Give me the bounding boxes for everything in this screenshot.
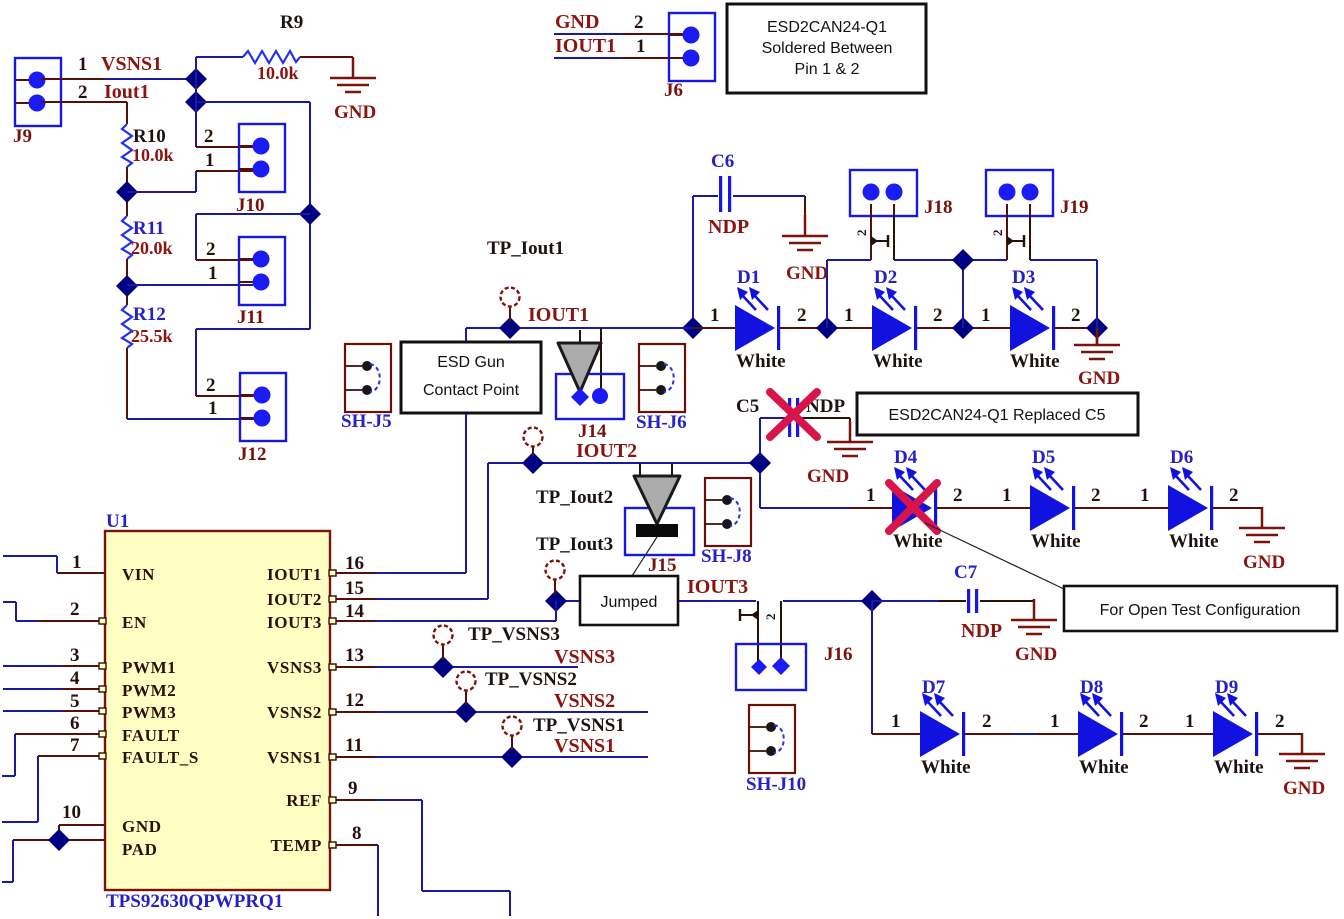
capacitor C6	[693, 176, 805, 212]
wire J19 pin legs	[1007, 216, 1030, 260]
svg-text:PWM1: PWM1	[122, 658, 176, 677]
wire (196,214)-(310,214) and down to J11 pin2	[196, 214, 310, 260]
svg-text:2: 2	[982, 711, 992, 732]
node junction at (533,463)	[522, 452, 544, 474]
svg-text:FAULT: FAULT	[122, 726, 180, 745]
connector J19	[986, 170, 1053, 216]
wire junction to J10 pin1	[127, 171, 253, 192]
svg-text:GND: GND	[786, 263, 828, 284]
wire REF pin9	[330, 800, 510, 916]
svg-text:GND: GND	[122, 817, 162, 836]
svg-text:IOUT1: IOUT1	[267, 565, 322, 584]
wire IOUT2 net	[488, 463, 760, 599]
svg-text:J9: J9	[13, 126, 32, 147]
node junction at (512,757)	[501, 746, 523, 768]
svg-text:J18: J18	[924, 197, 953, 218]
wire EN pin2	[3, 602, 105, 621]
svg-text:D8: D8	[1080, 677, 1103, 698]
node junction at (127,286)	[116, 275, 138, 297]
wire TEMP pin8	[330, 845, 378, 916]
svg-text:15: 15	[345, 578, 364, 599]
svg-text:White: White	[1169, 531, 1219, 552]
wire J9 pin1 to VSNS1 node	[41, 78, 196, 80]
pin marker EN	[99, 618, 106, 624]
svg-text:C6: C6	[711, 151, 734, 172]
wire D7 feed riser	[872, 601, 921, 734]
svg-text:White: White	[1010, 351, 1060, 372]
svg-text:J14: J14	[578, 421, 607, 442]
svg-text:Pin 1 & 2: Pin 1 & 2	[795, 61, 860, 78]
wire C6 to GND	[804, 196, 806, 216]
svg-text:U1: U1	[106, 511, 129, 532]
svg-text:IOUT1: IOUT1	[555, 35, 616, 57]
wire J14 right pin drop	[600, 328, 602, 390]
svg-text:GND: GND	[334, 102, 376, 123]
node junction at (693,328)	[682, 317, 704, 339]
callout box: For Open Test Configuration	[1064, 586, 1337, 631]
svg-text:16: 16	[345, 553, 364, 574]
svg-text:J6: J6	[664, 80, 683, 101]
wire FAULT_S pin7	[2, 756, 105, 822]
LED D3	[1010, 287, 1055, 351]
wire D4 feed	[760, 507, 893, 509]
svg-text:ESD2CAN24-Q1: ESD2CAN24-Q1	[767, 19, 887, 36]
LED D8	[1078, 693, 1123, 757]
wire D1 anode	[693, 327, 736, 329]
node junction at (827,328)	[816, 317, 838, 339]
shunt jumper SH-J8	[705, 478, 751, 546]
svg-text:2: 2	[933, 305, 943, 326]
svg-text:2: 2	[206, 239, 216, 260]
wire to R9	[196, 56, 243, 58]
wire R9 to GND	[300, 56, 353, 58]
wire IOUT1 pin16	[330, 572, 466, 574]
pin marker TEMP	[329, 842, 336, 848]
svg-text:D5: D5	[1032, 447, 1055, 468]
connector J11	[239, 237, 285, 305]
connector J12	[240, 373, 286, 441]
wire VSNS1 pin11	[330, 756, 648, 758]
connector J15	[625, 508, 694, 555]
svg-text:2: 2	[70, 599, 80, 620]
svg-text:2: 2	[78, 82, 88, 103]
wire IOUT3 net left segment	[556, 600, 756, 602]
svg-text:J15: J15	[648, 555, 677, 576]
test point TP_VSNS3	[434, 626, 453, 661]
svg-text:2: 2	[1091, 485, 1101, 506]
test point TP_Iout3	[546, 561, 565, 596]
wire IOUT2 pin15	[330, 598, 488, 600]
svg-text:TP_VSNS3: TP_VSNS3	[468, 624, 560, 645]
pin marker PWM1	[99, 663, 106, 669]
svg-text:D4: D4	[894, 447, 918, 468]
wire bypass riser x=963	[962, 260, 964, 328]
node junction at (872,601)	[861, 590, 883, 612]
svg-text:D6: D6	[1170, 447, 1193, 468]
svg-text:11: 11	[345, 735, 363, 756]
wire J15 pin stubs	[640, 463, 672, 495]
svg-text:NDP: NDP	[961, 620, 1002, 642]
wire J16 pin legs	[758, 601, 781, 661]
node junction at (1097,328)	[1086, 317, 1108, 339]
connector J14	[556, 374, 624, 419]
wire IOUT1 to J6 pin1	[554, 57, 686, 59]
pin marker PWM2	[99, 686, 106, 692]
connector J18	[850, 170, 917, 216]
svg-text:C5: C5	[736, 396, 759, 417]
wire D9 to gnd	[1258, 734, 1302, 736]
leader line to Jumped box	[632, 537, 657, 576]
ESD diode symbol (J18)	[854, 230, 888, 248]
pin marker FAULT_S	[99, 753, 106, 759]
wire VIN pin1	[3, 556, 105, 573]
callout box: ESD2CAN24-Q1 Soldered Between Pin 1 & 2	[727, 4, 926, 93]
svg-text:1: 1	[72, 552, 82, 573]
wire PWM2 pin4	[3, 688, 105, 690]
pin marker VSNS1	[329, 754, 336, 760]
pin marker VSNS2	[329, 709, 336, 715]
open cross on D4	[889, 483, 937, 531]
node junction at (196,102)	[185, 91, 207, 113]
pins (J14)	[571, 388, 608, 406]
svg-text:White: White	[736, 351, 786, 372]
svg-text:2: 2	[204, 126, 214, 147]
wire PWM3 pin5	[3, 710, 105, 712]
svg-text:1: 1	[844, 305, 854, 326]
pin marker REF	[329, 797, 336, 803]
svg-text:IOUT2: IOUT2	[576, 440, 637, 462]
node junction at (466,712)	[455, 701, 477, 723]
svg-text:2: 2	[634, 12, 644, 33]
wire D7-D8	[965, 733, 1079, 735]
wire D3 cathode to gnd node	[1055, 327, 1097, 329]
svg-text:2: 2	[1275, 711, 1285, 732]
pin marker PWM3	[99, 708, 106, 714]
svg-text:1: 1	[208, 263, 218, 284]
connector J10	[239, 124, 285, 192]
svg-text:2: 2	[206, 375, 216, 396]
resistor R9	[243, 51, 300, 63]
wire vertical bus x=196 top	[195, 57, 197, 147]
LED D6	[1168, 467, 1213, 531]
wire right riser x=310	[309, 102, 311, 329]
wire J9 pin2	[41, 102, 127, 124]
svg-text:R12: R12	[133, 304, 166, 325]
wire C6 left drop to D1 node	[692, 196, 694, 328]
LED D4	[892, 467, 937, 531]
node junction at (127,192)	[116, 181, 138, 203]
wire bus x196 to J10 pin2	[196, 146, 253, 148]
shunt jumper SH-J5	[345, 344, 391, 412]
wire VSNS3 pin13	[330, 666, 578, 668]
svg-text:For Open Test Configuration: For Open Test Configuration	[1100, 602, 1301, 619]
svg-text:TP_Iout3: TP_Iout3	[536, 534, 613, 555]
ground (C5)	[807, 421, 873, 487]
test point TP_VSNS1	[503, 717, 522, 751]
svg-text:EN: EN	[122, 613, 147, 632]
svg-text:REF: REF	[286, 791, 322, 810]
svg-text:1: 1	[866, 485, 876, 506]
svg-text:TP_Iout1: TP_Iout1	[487, 238, 564, 259]
svg-text:Iout1: Iout1	[104, 81, 150, 103]
svg-text:R10: R10	[133, 126, 166, 147]
wire R10 bottom	[126, 167, 128, 216]
test point TP_VSNS2	[457, 672, 476, 706]
callout box: ESD2CAN24-Q1 Replaced C5	[857, 393, 1138, 435]
svg-text:10.0k: 10.0k	[257, 63, 299, 83]
svg-text:VSNS1: VSNS1	[267, 748, 322, 767]
svg-text:IOUT3: IOUT3	[267, 613, 322, 632]
svg-text:D7: D7	[922, 677, 946, 698]
svg-text:TP_VSNS2: TP_VSNS2	[485, 669, 577, 690]
wire C5 branch riser	[759, 418, 761, 508]
svg-text:13: 13	[345, 645, 364, 666]
pin marker IOUT3	[329, 618, 336, 624]
svg-text:GND: GND	[1243, 552, 1285, 573]
svg-text:1: 1	[636, 36, 646, 57]
svg-text:D1: D1	[737, 267, 760, 288]
svg-text:1: 1	[78, 54, 88, 75]
pin marker IOUT2	[329, 596, 336, 602]
svg-text:8: 8	[352, 823, 362, 844]
test point TP_Iout2	[524, 428, 543, 457]
svg-text:TP_VSNS1: TP_VSNS1	[533, 715, 625, 736]
svg-text:NDP: NDP	[708, 216, 749, 238]
resistor R10	[122, 124, 132, 167]
wire (196,102)-(310,102)	[196, 101, 310, 103]
ground (R9)	[330, 57, 376, 123]
ESD diode symbol (J19)	[990, 230, 1024, 248]
svg-text:White: White	[921, 757, 971, 778]
svg-text:SH-J8: SH-J8	[701, 546, 752, 567]
svg-text:SH-J6: SH-J6	[636, 412, 687, 433]
svg-text:R9: R9	[280, 12, 303, 33]
svg-text:GND: GND	[555, 11, 599, 33]
svg-text:SH-J5: SH-J5	[341, 411, 392, 432]
svg-text:2: 2	[763, 614, 778, 621]
wire PWM1 pin3	[3, 665, 105, 667]
wire IOUT3 net right segment	[783, 600, 872, 602]
node junction at (310,214)	[299, 203, 321, 225]
svg-text:C7: C7	[954, 562, 978, 583]
wire D1-D2	[780, 327, 873, 329]
svg-text:White: White	[1214, 757, 1264, 778]
callout box: ESD Gun Contact Point	[401, 342, 541, 413]
svg-text:TEMP: TEMP	[270, 836, 322, 855]
LED D2	[872, 287, 917, 351]
svg-text:Soldered Between: Soldered Between	[762, 40, 893, 57]
svg-text:TPS92630QPWPRQ1: TPS92630QPWPRQ1	[106, 891, 283, 912]
wire J14 left pin stub	[579, 330, 581, 344]
wire GND to J6 pin2	[554, 33, 686, 35]
svg-text:ESD2CAN24-Q1 Replaced C5: ESD2CAN24-Q1 Replaced C5	[889, 407, 1106, 424]
resistor R11	[122, 216, 132, 259]
svg-text:2: 2	[1139, 711, 1149, 732]
wire IOUT3 pin14	[330, 601, 556, 621]
wire D8-D9	[1123, 733, 1214, 735]
svg-text:1: 1	[1185, 711, 1195, 732]
svg-text:9: 9	[348, 778, 358, 799]
svg-text:1: 1	[1002, 485, 1012, 506]
svg-text:2: 2	[854, 230, 869, 237]
svg-text:D9: D9	[1215, 677, 1238, 698]
svg-text:20.0k: 20.0k	[131, 238, 173, 258]
node junction at (963,260)	[952, 249, 974, 271]
svg-text:1: 1	[205, 150, 215, 171]
svg-text:VSNS1: VSNS1	[554, 735, 615, 757]
svg-text:GND: GND	[1078, 368, 1120, 389]
svg-text:VSNS2: VSNS2	[554, 690, 615, 712]
svg-text:2: 2	[1071, 305, 1081, 326]
svg-text:J16: J16	[824, 644, 853, 665]
svg-text:25.5k: 25.5k	[131, 326, 173, 346]
test point TP_Iout1	[501, 288, 520, 323]
svg-text:12: 12	[345, 690, 364, 711]
svg-text:4: 4	[70, 668, 80, 689]
pin marker VSNS3	[329, 664, 336, 670]
ESD diode symbol (J16)	[740, 609, 778, 621]
svg-text:GND: GND	[1283, 778, 1325, 799]
svg-text:Contact Point: Contact Point	[423, 382, 520, 399]
svg-text:White: White	[1079, 757, 1129, 778]
callout box: Jumped	[580, 576, 678, 625]
wire R11 bottom	[126, 259, 128, 305]
jumper bar (J15)	[636, 524, 678, 537]
svg-text:ESD Gun: ESD Gun	[437, 354, 505, 371]
wire D6 to gnd	[1213, 508, 1262, 510]
ground (D9)	[1279, 733, 1325, 799]
wire VSNS2 pin12	[330, 711, 648, 713]
ground (C6)	[782, 215, 828, 284]
svg-text:1: 1	[981, 305, 991, 326]
wire C5 to GND	[849, 418, 851, 422]
svg-text:GND: GND	[807, 466, 849, 487]
connector J9	[15, 58, 61, 126]
connector J16	[736, 644, 806, 690]
svg-text:VSNS3: VSNS3	[554, 646, 615, 668]
svg-text:5: 5	[70, 691, 80, 712]
node junction at (760,463)	[749, 452, 771, 474]
wire J18 pin legs	[871, 216, 894, 260]
wire IOUT1 net	[466, 328, 693, 573]
svg-text:IOUT2: IOUT2	[267, 590, 322, 609]
svg-text:10: 10	[62, 802, 81, 823]
svg-text:GND: GND	[1015, 644, 1057, 665]
LED D5	[1030, 467, 1075, 531]
wire D4-D5	[937, 507, 1031, 509]
svg-text:VSNS2: VSNS2	[267, 703, 322, 722]
svg-text:VSNS1: VSNS1	[101, 53, 162, 75]
node junction at (59,840)	[48, 829, 70, 851]
svg-text:White: White	[1031, 531, 1081, 552]
svg-text:14: 14	[345, 601, 365, 622]
wire junction to J11 pin1	[127, 284, 253, 286]
svg-text:White: White	[873, 351, 923, 372]
ESD gun arrow (J14)	[558, 343, 601, 392]
svg-text:10.0k: 10.0k	[132, 145, 174, 165]
wire bypass riser x=827	[826, 260, 828, 328]
wire bypass riser x=1097	[1096, 260, 1098, 328]
leader line to For Open Test box	[925, 523, 1064, 589]
svg-text:1: 1	[891, 711, 901, 732]
svg-text:VSNS3: VSNS3	[267, 658, 322, 677]
wire D2-D3	[917, 327, 1011, 329]
svg-text:IOUT3: IOUT3	[687, 576, 748, 598]
LED D1	[735, 287, 780, 351]
capacitor C5	[760, 398, 850, 437]
wire FAULT pin6	[2, 734, 105, 776]
svg-text:FAULT_S: FAULT_S	[122, 748, 199, 767]
svg-text:J11: J11	[237, 307, 264, 328]
connector J6	[669, 13, 715, 81]
svg-text:PWM3: PWM3	[122, 703, 176, 722]
IC U1	[105, 531, 330, 890]
LED D7	[920, 693, 965, 757]
svg-text:Jumped: Jumped	[601, 594, 658, 611]
svg-text:2: 2	[990, 230, 1005, 237]
svg-text:1: 1	[710, 305, 720, 326]
resistor R12	[122, 305, 132, 348]
wire GND pin10	[59, 825, 105, 840]
svg-text:J12: J12	[238, 444, 267, 465]
svg-text:2: 2	[1229, 485, 1239, 506]
svg-text:7: 7	[70, 735, 80, 756]
svg-text:6: 6	[70, 713, 80, 734]
node junction at (196,79)	[185, 68, 207, 90]
svg-text:VIN: VIN	[122, 565, 155, 584]
svg-text:R11: R11	[133, 218, 165, 239]
ground (C7)	[1011, 599, 1057, 665]
LED D9	[1213, 693, 1258, 757]
no-pop cross on C5	[770, 392, 817, 437]
svg-text:PAD: PAD	[122, 840, 157, 859]
svg-text:J19: J19	[1060, 197, 1089, 218]
svg-text:PWM2: PWM2	[122, 681, 176, 700]
pin marker IOUT1	[329, 570, 336, 576]
wire bypass bus segment 3	[1030, 259, 1097, 261]
svg-text:3: 3	[70, 645, 80, 666]
ground (D6)	[1239, 507, 1285, 573]
svg-text:2: 2	[953, 485, 963, 506]
wire bypass bus segment 2	[894, 259, 1007, 261]
svg-text:1: 1	[1140, 485, 1150, 506]
capacitor C7	[872, 589, 1034, 613]
wire R12 bottom to J12 pin1	[127, 348, 254, 419]
svg-text:1: 1	[1050, 711, 1060, 732]
node junction at (510,328)	[499, 317, 521, 339]
wire PAD	[2, 840, 105, 882]
wire J11 right riser to J12 pin2	[196, 329, 310, 396]
svg-text:D2: D2	[874, 267, 897, 288]
ground (D3)	[1074, 324, 1120, 389]
ESD gun arrow (J15)	[634, 476, 680, 524]
svg-text:TP_Iout2: TP_Iout2	[536, 487, 613, 508]
svg-text:2: 2	[797, 305, 807, 326]
shunt jumper SH-J6	[639, 344, 685, 412]
pin marker FAULT	[99, 731, 106, 737]
svg-text:IOUT1: IOUT1	[528, 304, 589, 326]
wire bypass bus segment 1	[827, 259, 871, 261]
svg-text:SH-J10: SH-J10	[746, 774, 806, 795]
svg-text:J10: J10	[236, 195, 265, 216]
node junction at (963,328)	[952, 317, 974, 339]
node junction at (556,601)	[545, 590, 567, 612]
node junction at (443,667)	[432, 656, 454, 678]
shunt jumper SH-J10	[749, 705, 795, 773]
svg-text:1: 1	[208, 398, 218, 419]
svg-text:D3: D3	[1012, 267, 1035, 288]
wire D5-D6	[1075, 507, 1169, 509]
